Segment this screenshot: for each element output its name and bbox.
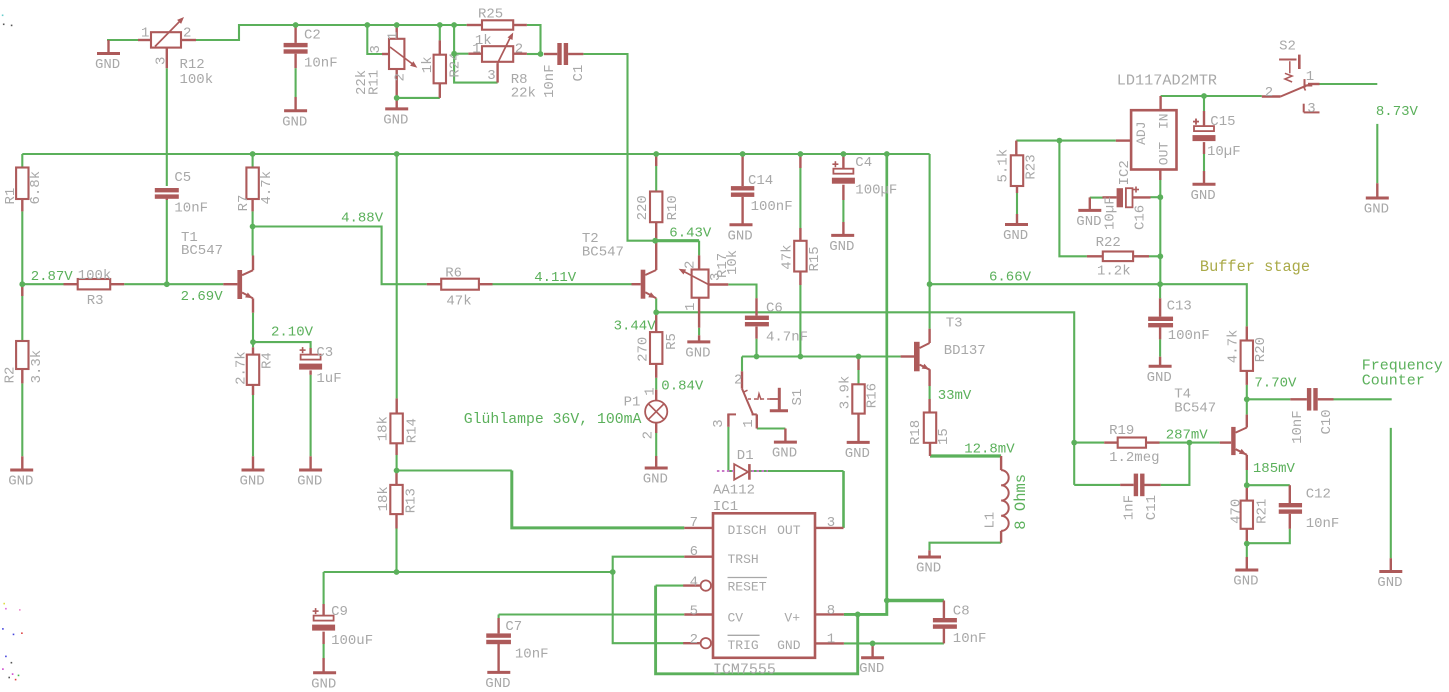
svg-text:7.70V: 7.70V [1254,376,1297,392]
svg-text:IN: IN [1156,113,1171,129]
svg-text:GND: GND [311,676,336,692]
svg-text:10nF: 10nF [1290,410,1306,444]
svg-text:CV: CV [728,610,744,625]
svg-text:1: 1 [1306,69,1314,85]
svg-text:270: 270 [635,337,651,362]
svg-text:5.1k: 5.1k [995,149,1011,183]
svg-text:GND: GND [685,345,710,361]
svg-text:C13: C13 [1167,299,1192,315]
svg-text:10µF: 10µF [1103,196,1119,230]
svg-text:GND: GND [916,561,941,577]
svg-text:10nF: 10nF [304,56,338,72]
svg-text:GND: GND [777,638,801,653]
svg-text:1: 1 [683,303,699,311]
svg-text:GND: GND [1076,214,1101,230]
svg-text:4.7k: 4.7k [259,171,275,205]
svg-text:R16: R16 [864,383,880,408]
svg-text:2: 2 [690,632,698,648]
svg-text:2.69V: 2.69V [181,289,224,305]
svg-text:R3: R3 [87,293,104,309]
svg-text:ICM7555: ICM7555 [713,661,776,678]
svg-text:GND: GND [485,676,510,692]
svg-text:1: 1 [741,419,757,427]
svg-text:C8: C8 [953,603,970,619]
svg-text:S2: S2 [1279,39,1296,55]
svg-text:3: 3 [1307,101,1315,117]
svg-text:R23: R23 [1023,154,1039,179]
svg-text:10µF: 10µF [1207,144,1241,160]
svg-text:GND: GND [240,474,265,490]
svg-text:8 Ohms: 8 Ohms [1012,474,1030,530]
svg-text:6.8k: 6.8k [28,171,44,205]
svg-text:R15: R15 [807,246,823,271]
svg-text:2: 2 [183,26,191,42]
svg-text:8.73V: 8.73V [1376,104,1419,120]
svg-text:18k: 18k [376,486,392,511]
svg-text:GND: GND [383,112,408,128]
svg-text:BC547: BC547 [1174,401,1216,417]
svg-text:C2: C2 [304,28,321,44]
svg-text:AA112: AA112 [713,483,755,499]
svg-text:GND: GND [95,57,120,73]
svg-text:1: 1 [827,632,835,648]
svg-text:GND: GND [1003,228,1028,244]
svg-text:100nF: 100nF [1168,328,1210,344]
svg-text:1: 1 [386,32,402,40]
svg-text:C14: C14 [748,173,773,189]
svg-text:2: 2 [1265,85,1273,101]
svg-text:IC1: IC1 [713,499,738,515]
svg-text:Counter: Counter [1362,372,1425,389]
svg-text:C10: C10 [1319,409,1335,434]
svg-text:BD137: BD137 [944,343,986,359]
svg-text:3: 3 [827,515,835,531]
svg-text:C5: C5 [174,170,191,186]
svg-text:GND: GND [1364,202,1389,218]
svg-text:10nF: 10nF [953,631,987,647]
svg-text:1.2k: 1.2k [1097,264,1131,280]
svg-text:R5: R5 [664,333,680,350]
svg-text:ADJ: ADJ [1134,121,1149,144]
svg-text:R20: R20 [1253,337,1269,362]
svg-text:C3: C3 [316,345,333,361]
svg-text:C1: C1 [571,65,587,82]
svg-text:8: 8 [827,603,835,619]
svg-text:2.7k: 2.7k [234,351,250,385]
svg-text:LD117AD2MTR: LD117AD2MTR [1117,72,1217,90]
svg-text:C9: C9 [331,604,348,620]
svg-text:22k: 22k [511,86,536,102]
svg-text:BC547: BC547 [582,245,624,261]
svg-text:R21: R21 [1254,499,1270,524]
svg-text:GND: GND [297,474,322,490]
svg-text:1uF: 1uF [316,371,341,387]
svg-text:7: 7 [690,515,698,531]
svg-text:GND: GND [829,239,854,255]
svg-text:C11: C11 [1144,495,1160,520]
svg-text:R25: R25 [478,7,503,23]
svg-text:D1: D1 [737,448,754,464]
svg-text:C7: C7 [505,619,522,635]
svg-text:6.43V: 6.43V [669,225,712,241]
svg-text:2: 2 [392,73,408,81]
svg-text:470: 470 [1229,499,1245,524]
svg-text:3.9k: 3.9k [837,376,853,410]
svg-text:1.2meg: 1.2meg [1109,450,1159,466]
svg-text:R2: R2 [3,367,19,384]
svg-text:1: 1 [472,42,480,58]
svg-text:T3: T3 [946,316,963,332]
svg-text:3: 3 [711,419,727,427]
svg-text:100k: 100k [78,268,112,284]
svg-text:P1: P1 [624,395,641,411]
svg-text:33mV: 33mV [938,388,972,404]
svg-text:S1: S1 [790,389,806,406]
svg-text:2.10V: 2.10V [271,325,314,341]
svg-text:Buffer stage: Buffer stage [1200,258,1310,276]
svg-text:GND: GND [728,228,753,244]
svg-text:R19: R19 [1109,423,1134,439]
svg-text:10nF: 10nF [542,64,558,98]
svg-text:2: 2 [734,373,742,389]
svg-text:5: 5 [690,604,698,620]
svg-text:R22: R22 [1096,235,1121,251]
svg-text:C15: C15 [1210,114,1235,130]
svg-text:R18: R18 [908,420,924,445]
svg-text:2: 2 [683,261,699,269]
svg-text:2.87V: 2.87V [31,269,74,285]
svg-text:GND: GND [8,474,33,490]
svg-text:R6: R6 [445,265,462,281]
svg-text:OUT: OUT [777,523,801,538]
svg-text:100uF: 100uF [331,633,373,649]
svg-text:R10: R10 [665,195,681,220]
svg-text:2: 2 [640,431,656,439]
svg-text:BC547: BC547 [181,243,223,259]
svg-text:100µF: 100µF [855,182,897,198]
svg-text:1: 1 [642,387,658,395]
svg-text:18k: 18k [376,416,392,441]
svg-text:C16: C16 [1133,205,1149,230]
svg-text:10k: 10k [725,250,741,275]
svg-text:OUT: OUT [1156,142,1171,166]
svg-text:100nF: 100nF [751,199,793,215]
svg-text:3: 3 [154,57,170,65]
svg-text:1k: 1k [420,56,436,73]
svg-text:IC2: IC2 [1117,160,1133,185]
svg-text:12.8mV: 12.8mV [964,441,1015,457]
svg-text:GND: GND [1377,575,1402,591]
svg-text:10nF: 10nF [515,646,549,662]
svg-text:GND: GND [643,472,668,488]
svg-text:RESET: RESET [728,580,767,595]
svg-text:TRSH: TRSH [728,552,759,567]
svg-text:10nF: 10nF [1306,516,1340,532]
svg-text:C6: C6 [766,301,783,317]
svg-text:V+: V+ [784,610,800,625]
svg-text:15: 15 [936,428,952,445]
svg-text:220: 220 [635,195,651,220]
svg-text:4.7k: 4.7k [1226,330,1242,364]
svg-text:47k: 47k [446,293,471,309]
svg-text:DISCH: DISCH [728,523,767,538]
svg-text:185mV: 185mV [1253,461,1296,477]
svg-text:47k: 47k [779,244,795,269]
svg-text:6: 6 [690,544,698,560]
svg-text:C12: C12 [1306,487,1331,503]
svg-text:10nF: 10nF [174,200,208,216]
svg-text:3.3k: 3.3k [29,350,45,384]
svg-text:4.88V: 4.88V [341,211,384,227]
svg-text:1nF: 1nF [1122,495,1138,520]
svg-text:R1: R1 [3,188,19,205]
svg-text:TRIG: TRIG [728,638,759,653]
svg-text:2: 2 [515,42,523,58]
svg-text:C4: C4 [855,155,872,171]
svg-text:4: 4 [690,574,698,590]
svg-text:GND: GND [1147,370,1172,386]
svg-text:3: 3 [368,45,384,53]
svg-text:GND: GND [1191,188,1216,204]
svg-text:6.66V: 6.66V [989,269,1032,285]
svg-text:R12: R12 [180,57,205,73]
svg-text:4.7nF: 4.7nF [766,329,808,345]
svg-text:3.44V: 3.44V [614,319,657,335]
svg-text:3: 3 [487,68,495,84]
svg-text:100k: 100k [180,72,214,88]
svg-text:R14: R14 [404,418,420,443]
svg-text:GND: GND [859,661,884,677]
svg-text:GND: GND [1233,574,1258,590]
svg-text:R7: R7 [236,195,252,212]
svg-text:L1: L1 [983,512,999,529]
svg-text:GND: GND [845,446,870,462]
svg-text:4.11V: 4.11V [534,270,577,286]
svg-text:1: 1 [141,26,149,42]
svg-text:R13: R13 [403,488,419,513]
svg-text:R11: R11 [366,70,382,95]
svg-text:GND: GND [772,446,797,462]
svg-text:Glühlampe 36V, 100mA: Glühlampe 36V, 100mA [464,412,642,428]
svg-text:0.84V: 0.84V [661,378,704,394]
svg-text:GND: GND [282,114,307,130]
svg-text:R4: R4 [260,352,276,369]
